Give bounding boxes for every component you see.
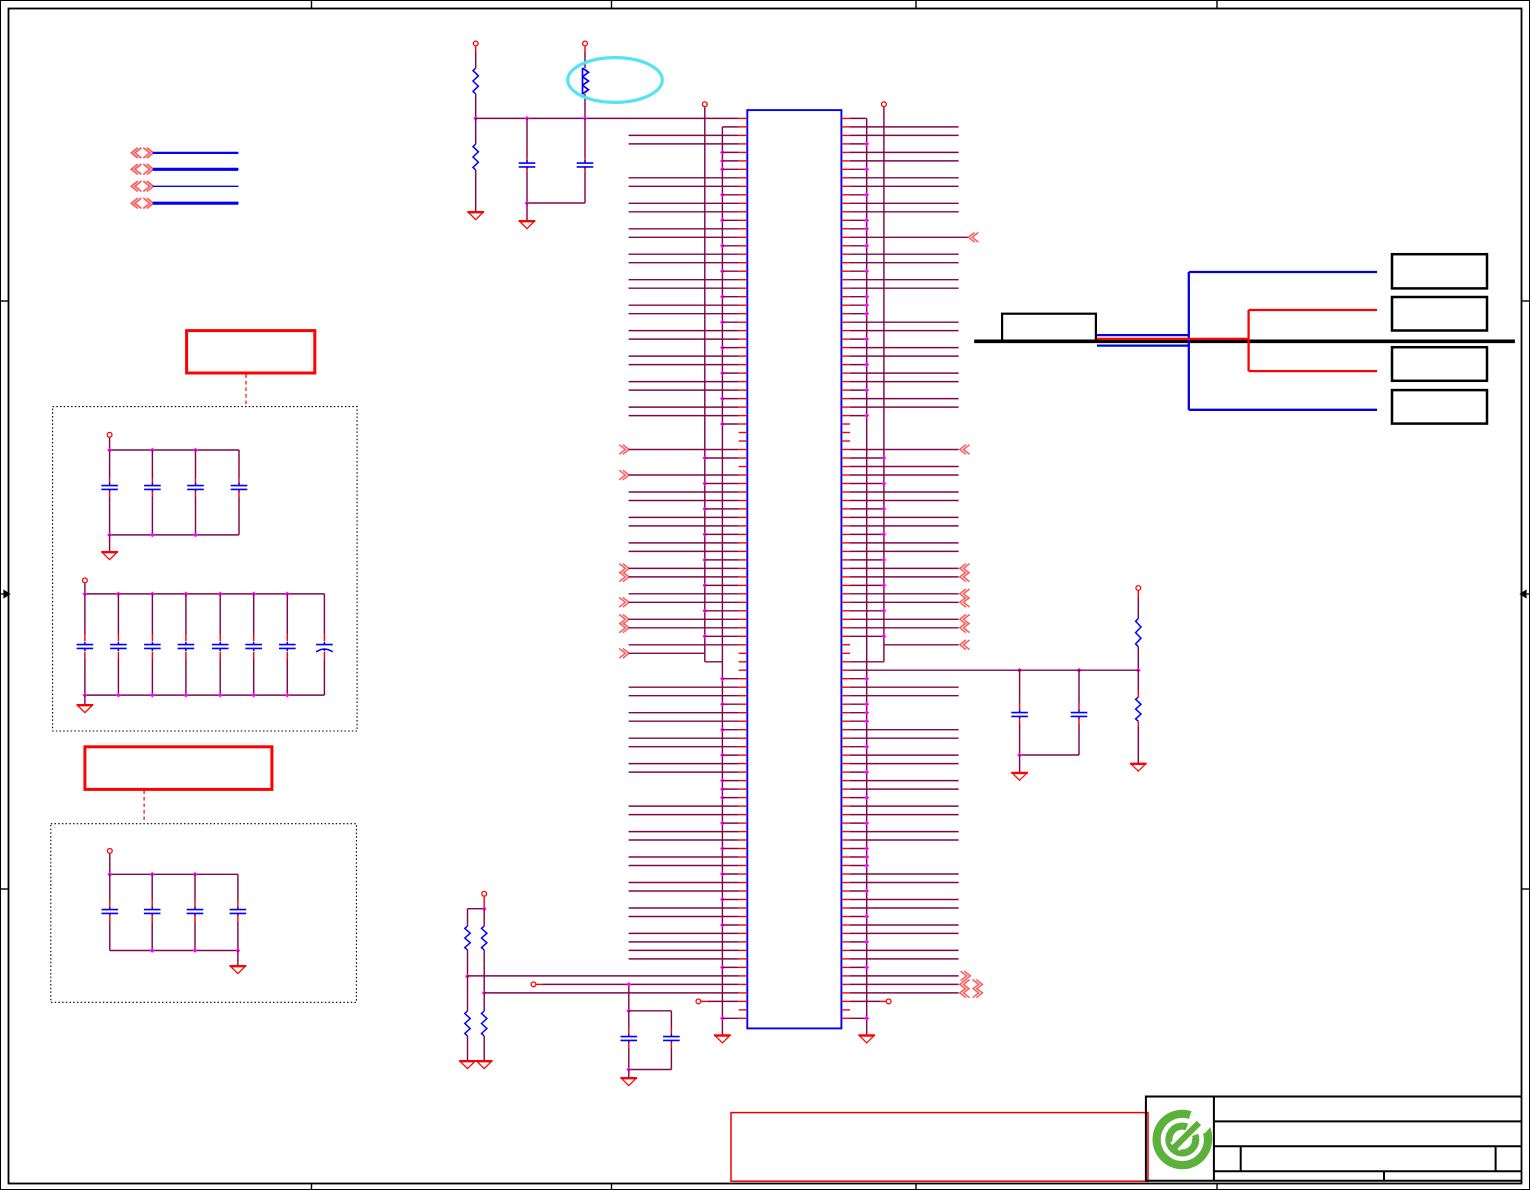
wire U1 right pin row 42	[850, 474, 959, 476]
wire U1 right pin row 83	[850, 821, 869, 826]
wire	[1019, 755, 1021, 773]
capacitor CB2-4	[178, 594, 195, 695]
wire U1 right pin row 90	[850, 882, 959, 884]
ground	[858, 1035, 875, 1043]
wire U1 right pin row 31	[850, 381, 959, 383]
wire U1 left pin row 15	[720, 243, 739, 248]
wire U1 right pin row 87	[850, 855, 869, 860]
wire U1 right pin row 69	[850, 702, 869, 707]
wire U1 left pin row 63	[619, 649, 705, 659]
wire U1 left pin row 36	[720, 422, 739, 427]
wire U1 right pin row 79	[850, 788, 959, 790]
wire	[482, 950, 487, 995]
wire U1 left pin row 17	[629, 262, 739, 264]
power pin circle VCC3	[107, 849, 112, 875]
wire U1 right pin row 86	[850, 846, 869, 851]
wire rail	[1017, 753, 1079, 758]
wire U1 right pin row 21	[850, 294, 869, 299]
wire U1 right pin row 17	[850, 262, 959, 264]
wire U1 left pin row 97	[629, 941, 739, 943]
wire U1 left pin row 94	[629, 916, 739, 918]
highlight ellipse	[568, 58, 663, 103]
wire U1 left pin row 4	[720, 150, 739, 155]
wire U1 right pin row 76	[850, 763, 959, 765]
wire U1 left pin row 104	[696, 999, 739, 1004]
capacitor CB2-5	[212, 594, 229, 695]
wire U1 left pin row 20	[629, 287, 739, 289]
wire U1 left pin row 71	[629, 720, 739, 722]
wire U1 right pin row 13	[850, 226, 869, 231]
wire U1 right pin row 9	[850, 192, 869, 197]
power pin circle VR1	[482, 891, 487, 908]
ground	[620, 1078, 637, 1086]
resistor R6	[465, 976, 470, 1036]
wire U1 left pin row 75	[720, 753, 739, 758]
capacitor CB3-1	[102, 874, 119, 950]
capacitor CB2-7	[279, 594, 296, 695]
wire U1 left pin row 48	[629, 525, 739, 527]
wire U1 right pin row 23	[850, 311, 869, 316]
wire U1 right pin row 22	[850, 303, 869, 308]
wire U1 right pin row 43	[850, 481, 886, 486]
power pin circle VPP2	[583, 41, 588, 68]
wire U1 left pin row 31	[629, 381, 739, 383]
wire U1 left pin row 40	[702, 456, 738, 461]
wire U1 left pin row 61	[702, 634, 738, 639]
wire U1 left pin row 8	[629, 185, 739, 187]
ground	[230, 966, 247, 974]
wire U1 left pin row 45	[629, 500, 739, 502]
wire U1 left pin row 80	[720, 795, 739, 800]
capacitor C4	[663, 1011, 680, 1070]
wire U1 right pin row 73	[850, 737, 959, 739]
wire	[237, 951, 239, 967]
wire rail	[626, 1067, 671, 1072]
wire U1 right pin row 35	[850, 413, 869, 418]
title block	[1146, 1096, 1522, 1182]
wire U1 right pin row 53	[850, 564, 970, 574]
wire U1 right pin row 54	[850, 572, 970, 582]
capacitor CB2-2	[110, 594, 127, 695]
wire U1 left pin row 57	[619, 598, 739, 608]
component box K1	[1002, 314, 1096, 341]
wire U1 right pin row 6	[850, 167, 869, 172]
IC U1 pin stubs	[739, 118, 850, 1018]
wire U1 right pin row 80	[850, 795, 869, 800]
ground	[77, 705, 94, 713]
wire U1 left pin row 82	[629, 814, 739, 816]
capacitor CB3-4	[230, 874, 247, 950]
capacitor C6	[1071, 668, 1088, 755]
wire U1 right pin row 28	[850, 355, 959, 357]
wire U1 left pin row 49	[702, 532, 738, 537]
power rail vertical left	[705, 107, 723, 662]
wire U1 left pin row 102	[543, 982, 739, 987]
ground	[101, 552, 118, 560]
connector box J1	[1392, 254, 1487, 288]
wire U1 right pin row 72	[850, 729, 959, 731]
wire U1 left pin row 74	[629, 746, 739, 748]
ground rail vertical left	[721, 127, 723, 1035]
wire U1 left pin row 81	[629, 805, 739, 807]
wire U1 right pin row 94	[850, 914, 869, 919]
wire U1 left pin row 89	[720, 872, 739, 877]
capacitor CB1-3	[187, 450, 204, 535]
hierarchical block (red) H2	[85, 747, 272, 790]
wire U1 right pin row 7	[850, 177, 959, 179]
wire U1 left pin row 96	[629, 932, 739, 934]
off-page bus connector 1	[131, 148, 238, 158]
wire U1 right pin row 89	[850, 873, 959, 875]
wire U1 right pin row 66	[850, 676, 869, 681]
wire U1 right pin row 32	[850, 388, 869, 393]
wire U1 right pin row 34	[850, 406, 959, 408]
leader dashed	[245, 375, 247, 407]
wire rail bottom	[83, 693, 325, 698]
wire	[475, 94, 477, 118]
wire U1 right pin row 56	[850, 589, 970, 599]
wire U1 right pin row 88	[850, 863, 869, 868]
wire U1 left pin row 76	[629, 763, 739, 765]
wire U1 right pin row 41	[850, 466, 959, 468]
wire U1 right pin row 103	[850, 988, 982, 998]
wire U1 left pin row 27	[720, 345, 739, 350]
capacitor C3	[621, 1011, 638, 1070]
wire U1 left pin row 77	[629, 771, 739, 773]
wire U1 left pin row 84	[629, 831, 739, 833]
logo EmbedFire	[1153, 1094, 1228, 1169]
power pin circle right	[882, 102, 887, 107]
wire U1 right pin row 39	[850, 445, 970, 455]
wire U1 right pin row 67	[850, 686, 959, 688]
wire U1 right pin row 98	[850, 949, 959, 951]
wire U1 left pin row 34	[629, 406, 739, 408]
wire U1 right pin row 99	[850, 958, 959, 960]
connector box J2	[1392, 297, 1487, 331]
wire U1 right pin row 10	[850, 202, 959, 204]
capacitor CB2-3	[144, 594, 161, 695]
wire	[84, 695, 86, 705]
wire U1 right pin row 25	[850, 330, 959, 332]
wire U1 right pin row 59	[850, 615, 970, 625]
wire U1 left pin row 69	[720, 702, 739, 707]
wire rail bottom	[110, 948, 241, 953]
wire U1 left pin row 87	[629, 856, 739, 858]
wire U1 right pin row 52	[850, 558, 886, 563]
ground	[519, 221, 536, 229]
wire U1 left pin row 99	[629, 958, 739, 960]
capacitor CB2-1	[77, 594, 94, 695]
wire U1 right pin row 11	[850, 211, 959, 213]
node junction	[473, 116, 478, 121]
wire U1 left pin row 55	[702, 583, 738, 588]
wire net to U1 pin	[476, 117, 739, 119]
wire rail top	[83, 592, 325, 597]
wire U1 right pin row 101	[850, 971, 970, 981]
wire U1 left pin row 47	[629, 516, 739, 518]
connector box J4	[1392, 390, 1487, 424]
wire U1 left pin row 70	[629, 712, 739, 714]
wire U1 left pin row 95	[720, 923, 739, 928]
wire U1 right pin row 8	[850, 185, 959, 187]
ground	[467, 212, 484, 220]
wire U1 left pin row 79	[720, 787, 739, 792]
power pin circle VCC1	[107, 432, 112, 450]
resistor R1	[473, 68, 478, 94]
off-page bus connector 2	[131, 164, 238, 174]
wire U1 right pin row 68	[850, 695, 959, 697]
power rail vertical right	[883, 107, 885, 662]
resistor R3	[583, 68, 589, 94]
wire U1 right pin row 27	[850, 347, 959, 349]
wire U1 right pin row 49	[850, 532, 886, 537]
wire U1 left pin row 42	[619, 470, 739, 480]
wire U1 left pin row 106	[720, 1016, 739, 1021]
wire U1 left pin row 1	[722, 126, 738, 128]
wire U1 left pin row 16	[629, 253, 739, 255]
wire U1 right pin row 2	[850, 134, 959, 136]
wire U1 left pin row 66	[720, 676, 739, 681]
wire U1 right pin row 60	[850, 623, 970, 633]
wire U1 left pin row 92	[720, 897, 739, 902]
wire U1 left pin row 44	[629, 491, 739, 493]
ground rail vertical right	[866, 118, 868, 1035]
wire U1 right pin row 84	[850, 831, 959, 833]
wire U1 right pin row 30	[850, 372, 959, 374]
wire U1 left pin row 12	[720, 218, 739, 223]
wire U1 right pin row 58	[850, 608, 886, 613]
IC U1 body	[747, 110, 841, 1028]
capacitor CB1-4	[231, 450, 248, 535]
wire U1 right pin row 18	[850, 269, 869, 274]
wire U1 left pin row 58	[702, 608, 738, 613]
wire U1 right pin row 45	[850, 500, 959, 502]
wire U1 right pin row 4	[850, 151, 959, 153]
wire rail top	[107, 872, 238, 877]
wire U1 left pin row 2	[629, 134, 739, 136]
capacitor C5	[1011, 668, 1028, 755]
capacitor CB1-1	[101, 450, 118, 535]
wire U1 right pin row 55	[850, 583, 886, 588]
ground	[1011, 773, 1028, 781]
wire U1 right pin row 96	[850, 932, 959, 934]
wire U1 left pin row 53	[619, 564, 739, 574]
wire	[526, 203, 528, 221]
wire U1 right pin row 57	[850, 598, 970, 608]
wire U1 left pin row 35	[629, 415, 739, 417]
wire U1 right pin row 102	[850, 980, 982, 990]
wire U1 left pin row 22	[629, 304, 739, 306]
wire	[109, 535, 111, 552]
wire U1 right pin row 50	[850, 542, 959, 544]
wire U1 left pin row 101	[468, 975, 739, 977]
capacitor CB1-2	[144, 450, 161, 535]
wire U1 right pin row 46	[850, 507, 886, 512]
ground	[476, 1061, 493, 1069]
wire U1 left pin row 43	[702, 481, 738, 486]
wire U1 right pin row 93	[850, 907, 959, 909]
wire U1 right pin row 47	[850, 516, 959, 518]
wire U1 right pin row 97	[850, 940, 869, 945]
wire U1 right pin row 106	[850, 1016, 869, 1021]
wire U1 right pin row 95	[850, 924, 959, 926]
wire U1 right pin row 74	[850, 744, 869, 749]
wire U1 right pin row 5	[850, 160, 959, 162]
wire U1 right pin row 26	[850, 337, 869, 342]
wire U1 right pin row 78	[850, 780, 959, 782]
wire U1 right pin row 75	[850, 754, 959, 756]
wire red pair	[1097, 310, 1377, 371]
wire U1 right pin row 62	[884, 640, 970, 650]
wire U1 left pin row 67	[629, 686, 739, 688]
wire U1 left pin row 9	[720, 192, 739, 197]
wire U1 left pin row 98	[629, 949, 739, 951]
ground	[1130, 764, 1147, 772]
wire U1 right pin row 85	[850, 839, 959, 841]
wire U1 right pin row 12	[850, 218, 869, 223]
wire U1 right pin row 29	[850, 362, 869, 367]
resistor R4	[465, 926, 470, 950]
wire U1 left pin row 56	[629, 593, 739, 595]
wire U1 right pin row 3	[850, 142, 869, 147]
capacitor CB3-2	[144, 874, 161, 950]
power pin circle VPP1	[473, 41, 478, 68]
wire U1 left pin row 25	[629, 330, 739, 332]
wire U1 left pin row 24	[720, 320, 739, 325]
wire U1 right pin row 33	[850, 398, 959, 400]
wire blue pair	[1097, 272, 1377, 410]
wire U1 right pin row 19	[850, 279, 959, 281]
wire U1 left pin row 14	[629, 236, 739, 238]
wire rail	[629, 1010, 672, 1012]
wire rail bottom	[107, 533, 239, 538]
wire U1 left pin row 100	[720, 965, 739, 970]
wire U1 right pin row 91	[850, 889, 869, 894]
wire	[584, 94, 586, 118]
wire U1 left pin row 83	[720, 821, 739, 826]
node junction	[583, 116, 588, 121]
wire rail top	[107, 448, 239, 453]
wire U1 left pin row 60	[619, 623, 739, 633]
wire U1 left pin row 62	[629, 644, 739, 646]
wire U1 right pin row 92	[850, 899, 959, 901]
wire U1 left pin row 59	[619, 615, 739, 625]
wire	[468, 906, 487, 926]
wire U1 left pin row 11	[629, 211, 739, 213]
wire U1 right pin row 16	[850, 253, 959, 255]
connector box J3	[1392, 347, 1487, 381]
wire U1 left pin row 32	[629, 389, 739, 391]
note box (red)	[731, 1113, 1148, 1182]
wire U1 left pin row 10	[629, 202, 739, 204]
wire U1 left pin row 85	[629, 839, 739, 841]
capacitor CB2-6	[245, 594, 262, 695]
wire	[626, 984, 631, 1013]
wire U1 right pin row 104	[850, 999, 891, 1004]
wire U1 left pin row 18	[720, 269, 739, 274]
wire U1 left pin row 7	[629, 177, 739, 179]
wire U1 left pin row 5	[720, 159, 739, 164]
resistor R7	[482, 993, 487, 1036]
off-page bus connector 4	[131, 198, 238, 208]
capacitor CB2-8	[316, 594, 333, 695]
wire U1 left pin row 86	[720, 846, 739, 851]
power pin circle VR2	[1136, 586, 1141, 619]
wire U1 left pin row 29	[629, 364, 739, 366]
wire U1 left pin row 28	[629, 355, 739, 357]
wire	[1136, 647, 1141, 673]
wire U1 left pin row 73	[629, 737, 739, 739]
wire U1 right pin row 70	[850, 710, 869, 715]
capacitor CB3-3	[187, 874, 204, 950]
wire U1 left pin row 3	[629, 143, 739, 145]
dotted group box 2	[51, 824, 357, 1003]
wire	[475, 170, 477, 212]
wire U1 right pin row 82	[850, 814, 959, 816]
wire U1 left pin row 68	[629, 695, 739, 697]
resistor R5	[482, 926, 487, 950]
wire U1 left pin row 50	[629, 542, 739, 544]
wire U1 left pin row 19	[629, 279, 739, 281]
resistor R8	[1136, 619, 1141, 647]
wire U1 left pin row 33	[720, 396, 739, 401]
wire U1 right pin row 1	[850, 126, 959, 128]
wire U1 left pin row 54	[619, 572, 739, 582]
wire U1 left pin row 78	[720, 778, 739, 783]
power pin circle VCC2	[83, 578, 88, 594]
resistor R9	[1136, 670, 1141, 763]
wire	[465, 950, 470, 979]
wire U1 left pin row 88	[629, 865, 739, 867]
wire U1 left pin row 51	[629, 550, 739, 552]
no-connect circle	[531, 982, 543, 987]
wire U1 right pin row 51	[850, 550, 959, 552]
ground	[714, 1035, 731, 1043]
wire U1 right pin row 100	[850, 965, 869, 970]
wire U1 left pin row 46	[702, 507, 738, 512]
wire U1 left pin row 6	[720, 167, 739, 172]
wire	[483, 1036, 485, 1061]
wire U1 right pin row 24	[850, 321, 959, 323]
dotted group box 1	[53, 407, 358, 731]
wire U1 left pin row 52	[702, 558, 738, 563]
wire U1 right pin row 65	[850, 669, 1138, 671]
off-page bus connector 3	[131, 181, 238, 191]
leader dashed	[143, 791, 145, 824]
wire U1 left pin row 103	[484, 992, 739, 994]
wire U1 right pin row 0	[850, 117, 867, 119]
wire U1 right pin row 15	[850, 243, 869, 248]
wire U1 right pin row 81	[850, 805, 959, 807]
resistor R2	[473, 118, 478, 170]
wire U1 right pin row 64	[850, 661, 884, 663]
wire U1 left pin row 90	[629, 882, 739, 884]
wire U1 right pin row 40	[850, 456, 886, 461]
power pin circle left	[702, 102, 707, 107]
wire U1 right pin row 20	[850, 287, 959, 289]
wire U1 right pin row 77	[850, 770, 869, 775]
capacitor C2	[577, 118, 594, 203]
hierarchical block (red) H1	[187, 331, 315, 373]
wire	[467, 1036, 469, 1061]
wire U1 right pin row 48	[850, 525, 959, 527]
wire U1 left pin row 13	[629, 228, 739, 230]
capacitor C1	[519, 116, 536, 203]
wire	[525, 201, 585, 206]
wire U1 left pin row 91	[629, 890, 739, 892]
wire U1 left pin row 72	[720, 727, 739, 732]
wire U1 right pin row 71	[850, 719, 869, 724]
